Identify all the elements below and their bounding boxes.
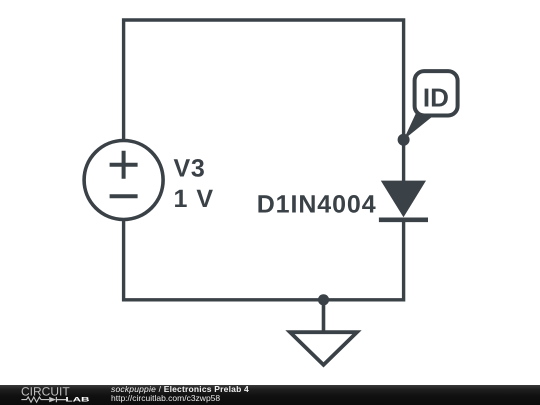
svg-text:1 V: 1 V bbox=[174, 185, 215, 213]
diode D1 cathode bar bbox=[379, 218, 428, 223]
diode symbol bbox=[49, 397, 56, 402]
diode D1 anode triangle bbox=[381, 181, 426, 218]
ID callout box bbox=[415, 71, 458, 115]
wire bottom loop: left vertical, bottom horizontal, right vertical bbox=[124, 220, 404, 300]
svg-text:V3: V3 bbox=[174, 155, 206, 183]
credits text bbox=[110, 384, 112, 386]
voltage source V3 minus sign bbox=[110, 194, 138, 198]
junction dot at ground node bbox=[318, 294, 329, 305]
ground symbol triangle bbox=[290, 332, 357, 365]
CircuitLab logo bbox=[0, 384, 110, 405]
resistor zigzag bbox=[21, 397, 49, 402]
svg-text:ID: ID bbox=[423, 82, 449, 112]
svg-text:D1IN4004: D1IN4004 bbox=[257, 191, 377, 219]
ID callout tail bbox=[404, 112, 438, 140]
node dot for ID probe on wire bbox=[398, 134, 410, 146]
footer bar bbox=[0, 385, 540, 405]
voltage source V3 plus sign bbox=[110, 151, 138, 179]
wire top loop: left vertical, top horizontal, right vertical bbox=[124, 20, 404, 181]
ground stub wire bbox=[322, 300, 326, 333]
voltage source V3 body bbox=[84, 141, 163, 220]
svg-text:LAB: LAB bbox=[65, 396, 90, 403]
